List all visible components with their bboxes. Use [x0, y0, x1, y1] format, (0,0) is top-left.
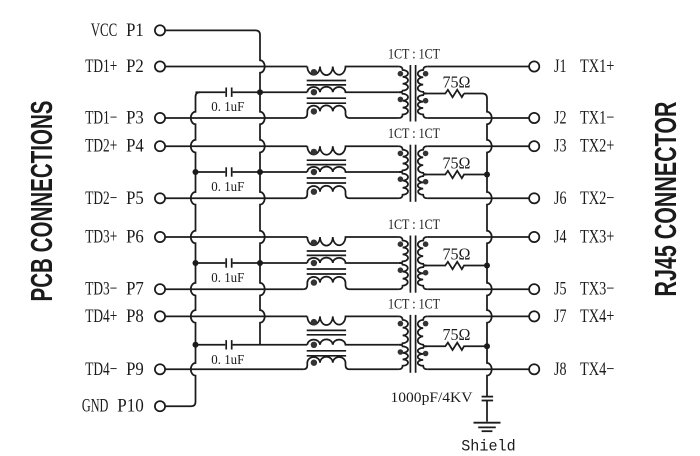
svg-text:1CT : 1CT: 1CT : 1CT [388, 47, 440, 63]
pin terminal J1 (TX1+) [529, 56, 614, 77]
svg-text:P2: P2 [126, 56, 144, 77]
value label 75 ohm (R4) [443, 325, 471, 344]
junction ground bus / C2 [193, 169, 199, 175]
node Shield label [461, 437, 516, 455]
wire GND P10 to ground bus [165, 345, 195, 406]
choke L2 winding C (TD2- path) [303, 186, 398, 199]
choke L1 winding B (center-tap path) [307, 87, 399, 96]
svg-text:75Ω: 75Ω [443, 72, 471, 91]
capacitor C4 0.1uF [196, 340, 261, 349]
junction center-tap bus / C1 [257, 89, 263, 95]
wire T1 secondary to J1 [427, 66, 529, 68]
pin terminal P7 (TD3-) [85, 279, 165, 300]
wire TD4+ to choke L4 [165, 315, 307, 317]
junction rail / R2 [484, 172, 490, 178]
pin terminal J8 (TX4-) [529, 359, 614, 380]
svg-text:P1: P1 [126, 20, 144, 41]
svg-text:TD2−: TD2− [85, 188, 117, 209]
resistor R4 75 ohm (center-tap termination) [427, 343, 487, 350]
value label 0.1uF (C4) [211, 353, 244, 368]
junction ground bus / C4 [193, 342, 199, 348]
resistor R1 75 ohm (center-tap termination) [427, 90, 464, 97]
svg-text:P10: P10 [117, 396, 144, 417]
svg-text:TD4−: TD4− [85, 359, 117, 380]
svg-text:75Ω: 75Ω [443, 325, 471, 344]
choke L4 winding C (TD4- path) [303, 357, 398, 370]
transformer T1 secondary top winding [418, 67, 429, 94]
svg-text:VCC: VCC [91, 20, 118, 41]
svg-text:J3: J3 [554, 136, 567, 157]
svg-text:P4: P4 [126, 136, 144, 157]
pin terminal J7 (TX4+) [529, 306, 614, 327]
transformer T1 primary top winding [398, 67, 408, 93]
svg-text:TX3+: TX3+ [580, 227, 614, 248]
svg-text:TD1+: TD1+ [85, 56, 117, 77]
pin terminal P2 (TD1+) [85, 56, 165, 77]
capacitor C3 0.1uF [196, 258, 261, 267]
svg-text:TD3−: TD3− [85, 279, 117, 300]
value label 1000pF/4KV (C5) [391, 390, 474, 406]
transformer T2 core [410, 145, 415, 202]
capacitor C5 1000pF/4KV [482, 397, 494, 422]
wire TD3- to choke L3 [165, 288, 303, 290]
wire VCC P1 to center-tap bus [165, 30, 264, 92]
transformer T4 core [410, 315, 415, 373]
transformer T4 primary bottom winding [398, 345, 408, 370]
svg-text:Shield: Shield [461, 437, 516, 455]
choke L3 core (lower pair) [307, 269, 346, 274]
value label 75 ohm (R2) [443, 153, 471, 172]
svg-text:TX2−: TX2− [580, 188, 614, 209]
capacitor C1 0.1uF [196, 88, 261, 97]
junction center-tap bus / C3 [257, 260, 263, 266]
svg-text:TD2+: TD2+ [85, 136, 117, 157]
svg-text:TX1−: TX1− [580, 108, 614, 129]
transformer T3 secondary top winding [418, 237, 429, 266]
wire T4 secondary to J8 [427, 368, 529, 370]
transformer T3 primary bottom winding [398, 263, 408, 289]
junction rail / R4 [484, 343, 490, 349]
transformer T1 primary bottom winding [398, 92, 408, 118]
svg-text:TX1+: TX1+ [580, 56, 614, 77]
pin terminal J5 (TX3-) [529, 279, 614, 300]
svg-text:TD1−: TD1− [85, 108, 117, 129]
svg-text:RJ45 CONNECTOR: RJ45 CONNECTOR [648, 102, 683, 297]
wire ground bus middle section [191, 172, 196, 263]
value label 0.1uF (C3) [211, 271, 244, 286]
pin terminal P4 (TD2+) [85, 136, 165, 157]
wire T3 secondary to J5 [427, 288, 529, 290]
wire center-tap bus to choke L2 middle winding [260, 171, 307, 173]
svg-text:TD4+: TD4+ [85, 306, 117, 327]
choke L1 core (lower pair) [307, 98, 346, 103]
value label 75 ohm (R1) [443, 72, 471, 91]
pin terminal P9 (TD4-) [85, 359, 165, 380]
wire TD4- to choke L4 [165, 368, 303, 370]
svg-text:TX3−: TX3− [580, 279, 614, 300]
svg-text:J1: J1 [554, 56, 567, 77]
choke L4 core (lower pair) [307, 351, 346, 356]
choke L2 winding A (TD2+ path) [307, 146, 398, 155]
svg-text:1CT : 1CT: 1CT : 1CT [388, 126, 440, 142]
RJ45 CONNECTOR side title [648, 102, 683, 297]
svg-text:P5: P5 [126, 188, 144, 209]
transformer T3 core [410, 236, 415, 293]
choke L2 core (upper pair) [307, 160, 346, 164]
svg-text:TD3+: TD3+ [85, 227, 117, 248]
svg-text:J8: J8 [554, 359, 567, 380]
wire center-tap bus to choke L3 middle winding [260, 262, 307, 264]
pin terminal J4 (TX3+) [529, 227, 614, 248]
junction center-tap bus / C2 [257, 169, 263, 175]
svg-text:1CT : 1CT: 1CT : 1CT [388, 217, 440, 233]
wire T4 secondary to J7 [427, 315, 529, 317]
wire ground bus top section [191, 92, 200, 172]
resistor R2 75 ohm (center-tap termination) [427, 171, 487, 178]
svg-text:0. 1uF: 0. 1uF [211, 271, 244, 286]
ground (shield earth symbol) [474, 423, 501, 432]
transformer T3 primary top winding [398, 237, 408, 263]
svg-text:P9: P9 [126, 359, 144, 380]
svg-text:1000pF/4KV: 1000pF/4KV [391, 390, 474, 406]
choke L4 winding A (TD4+ path) [307, 316, 398, 325]
svg-text:J5: J5 [554, 279, 567, 300]
svg-text:0. 1uF: 0. 1uF [211, 100, 244, 115]
choke L3 winding C (TD3- path) [303, 277, 398, 290]
pin terminal J2 (TX1-) [529, 108, 614, 129]
transformer T3 secondary bottom winding [418, 266, 429, 290]
wire center-tap bus to choke L1 middle winding [260, 91, 307, 93]
svg-text:J6: J6 [554, 188, 567, 209]
transformer T2 primary top winding [398, 146, 408, 172]
wire TD2+ to choke L2 [165, 145, 307, 147]
pin terminal J6 (TX2-) [529, 188, 614, 209]
capacitor C2 0.1uF [196, 167, 261, 176]
svg-text:J7: J7 [554, 306, 567, 327]
svg-text:75Ω: 75Ω [443, 244, 471, 263]
choke L4 winding B (center-tap path) [307, 339, 399, 348]
wire T2 secondary to J3 [427, 145, 529, 147]
value label 1CT : 1CT (T4 ratio) [388, 296, 440, 312]
svg-text:P3: P3 [126, 108, 144, 129]
wire T1 secondary to J2 [427, 117, 529, 119]
svg-text:1CT : 1CT: 1CT : 1CT [388, 296, 440, 312]
wire TD3+ to choke L3 [165, 236, 307, 238]
value label 0.1uF (C1) [211, 100, 244, 115]
choke L4 core (upper pair) [307, 330, 346, 334]
svg-text:TX2+: TX2+ [580, 136, 614, 157]
value label 1CT : 1CT (T2 ratio) [388, 126, 440, 142]
pin terminal P10 (GND) [82, 396, 165, 417]
transformer T2 primary bottom winding [398, 172, 408, 198]
svg-text:TX4+: TX4+ [580, 306, 614, 327]
wire TD1+ to choke L1 [165, 66, 307, 68]
choke L1 winding A (TD1+ path) [307, 67, 398, 76]
value label 1CT : 1CT (T1 ratio) [388, 47, 440, 63]
svg-text:P7: P7 [126, 279, 144, 300]
wire ground bus upper section [191, 263, 196, 345]
svg-text:P8: P8 [126, 306, 144, 327]
choke L3 winding B (center-tap path) [307, 258, 399, 267]
transformer T4 secondary top winding [418, 316, 429, 346]
wire 75-ohm common termination rail [464, 94, 492, 397]
wire center-tap bus to choke L4 middle winding [260, 344, 307, 346]
transformer T4 secondary bottom winding [418, 346, 429, 369]
pin terminal P6 (TD3+) [85, 227, 165, 248]
wire TD1- to choke L1 [165, 117, 303, 119]
choke L1 winding C (TD1- path) [303, 105, 398, 118]
transformer T2 secondary top winding [418, 146, 429, 174]
resistor R3 75 ohm (center-tap termination) [427, 262, 487, 269]
junction rail / R3 [484, 263, 490, 269]
wire TD2- to choke L2 [165, 197, 303, 199]
choke L2 core (lower pair) [307, 178, 346, 183]
svg-text:P6: P6 [126, 227, 144, 248]
svg-text:0. 1uF: 0. 1uF [211, 353, 244, 368]
pin terminal J3 (TX2+) [529, 136, 614, 157]
wire T2 secondary to J6 [427, 197, 529, 199]
choke L1 core (upper pair) [307, 81, 346, 85]
junction ground bus / C3 [193, 260, 199, 266]
wire T3 secondary to J4 [427, 236, 529, 238]
transformer T2 secondary bottom winding [418, 175, 429, 199]
value label 0.1uF (C2) [211, 180, 244, 195]
pin terminal P3 (TD1-) [85, 108, 165, 129]
svg-text:GND: GND [82, 396, 109, 417]
transformer T1 core [410, 65, 415, 122]
value label 75 ohm (R3) [443, 244, 471, 263]
choke L3 core (upper pair) [307, 251, 346, 255]
transformer T1 secondary bottom winding [418, 94, 429, 119]
transformer T4 primary top winding [398, 316, 408, 344]
svg-text:TX4−: TX4− [580, 359, 614, 380]
svg-text:75Ω: 75Ω [443, 153, 471, 172]
pin terminal P5 (TD2-) [85, 188, 165, 209]
svg-text:J2: J2 [554, 108, 567, 129]
svg-text:0. 1uF: 0. 1uF [211, 180, 244, 195]
PCB CONNECTIONS side title [24, 101, 59, 302]
svg-text:J4: J4 [554, 227, 567, 248]
pin terminal P1 (VCC) [91, 20, 165, 41]
svg-text:PCB CONNECTIONS: PCB CONNECTIONS [24, 101, 59, 302]
pin terminal P8 (TD4+) [85, 306, 165, 327]
choke L3 winding A (TD3+ path) [307, 237, 398, 246]
wire VCC bus (center-tap bus) lower section [260, 92, 265, 345]
choke L2 winding B (center-tap path) [307, 167, 399, 176]
value label 1CT : 1CT (T3 ratio) [388, 217, 440, 233]
